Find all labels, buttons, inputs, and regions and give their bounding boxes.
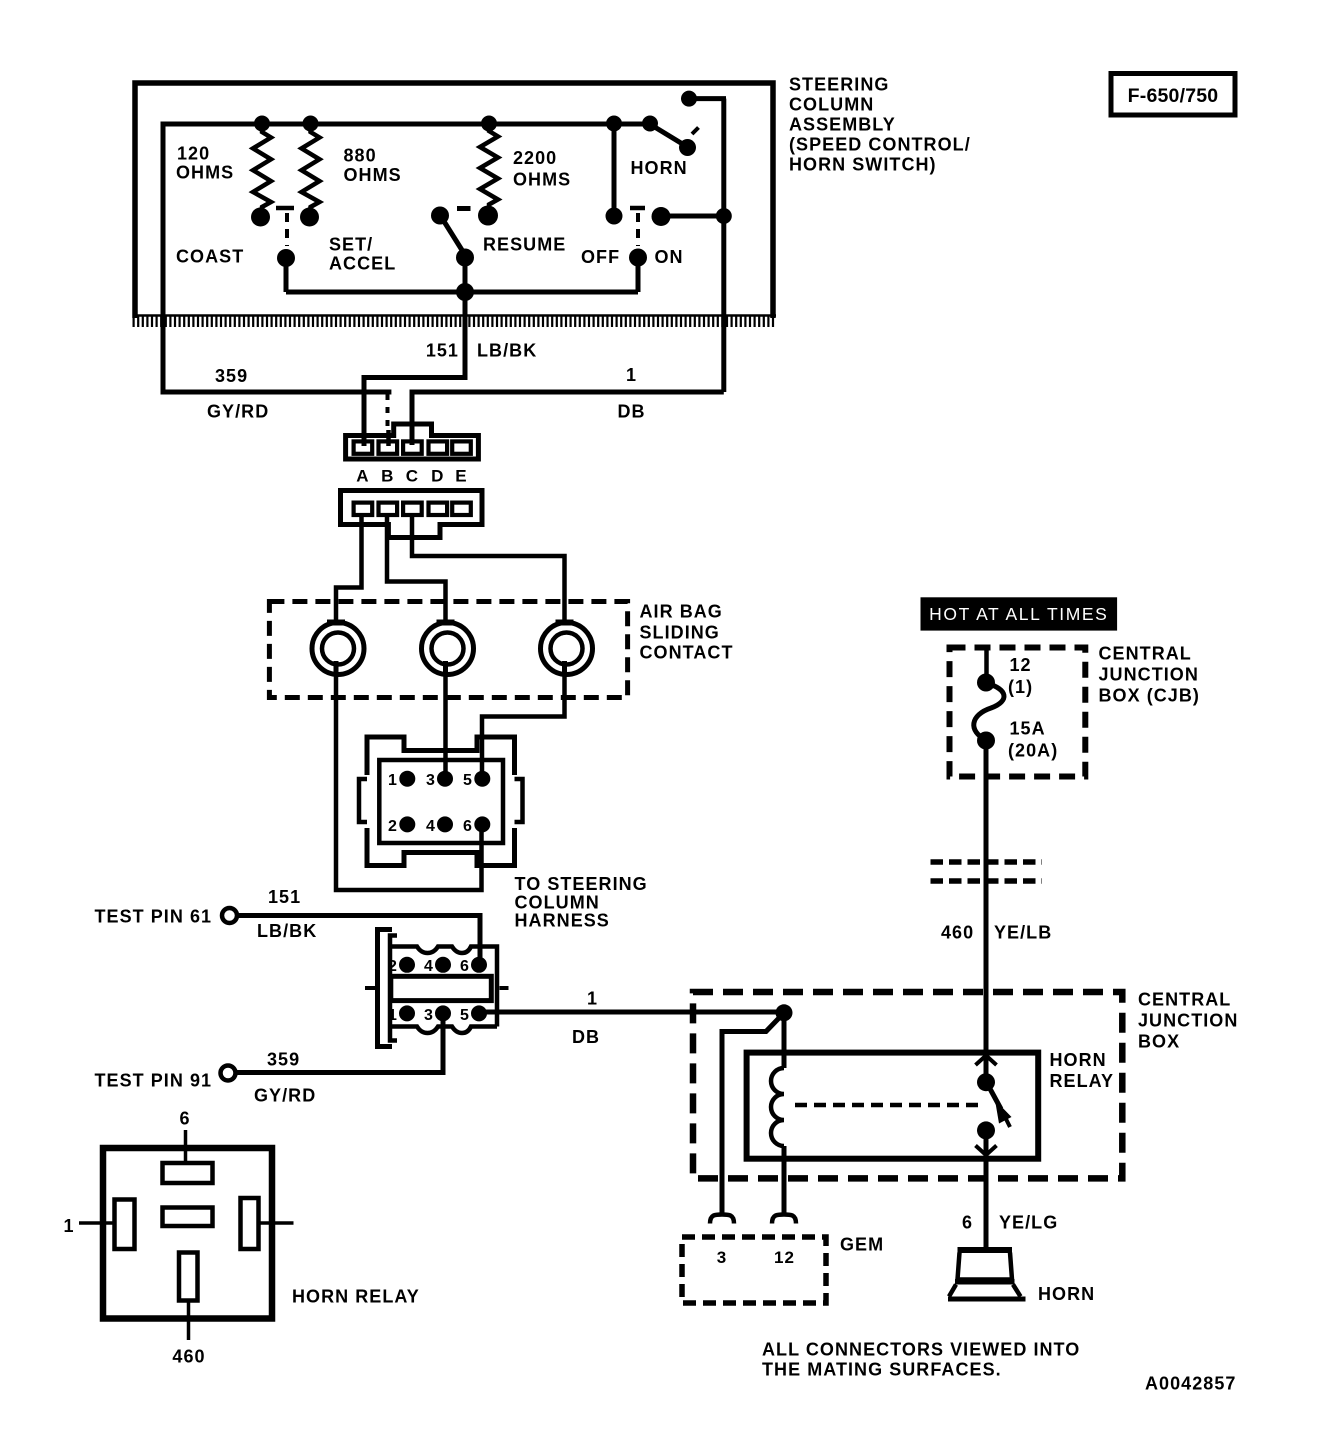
- svg-text:HORN SWITCH): HORN SWITCH): [789, 155, 937, 175]
- connector C202 upper half shell: [346, 424, 479, 459]
- svg-text:6: 6: [179, 1109, 190, 1129]
- svg-text:TO STEERING: TO STEERING: [515, 874, 648, 894]
- svg-text:2: 2: [388, 818, 398, 835]
- pin slot A: [354, 441, 373, 453]
- central junction box dashed box: [693, 992, 1122, 1178]
- sliding contact coil 2: [422, 623, 474, 675]
- pin 2: [399, 816, 415, 832]
- connector C210 lower: outer bracket: [378, 930, 393, 1047]
- switch resume blade contact: [431, 207, 449, 225]
- svg-text:2200: 2200: [513, 148, 557, 168]
- svg-text:CONTACT: CONTACT: [640, 643, 734, 663]
- wire 151 test pin to pin 6: [237, 916, 480, 963]
- pin 6: [474, 816, 490, 832]
- svg-text:HORN: HORN: [1050, 1050, 1107, 1070]
- wire inner top rail: [163, 122, 650, 127]
- pin slot A2: [354, 503, 373, 515]
- svg-text:THE MATING SURFACES.: THE MATING SURFACES.: [762, 1360, 1002, 1380]
- svg-text:ACCEL: ACCEL: [329, 254, 396, 274]
- svg-text:3: 3: [717, 1248, 728, 1267]
- svg-text:460: 460: [172, 1347, 205, 1367]
- pin 1: [399, 771, 415, 787]
- svg-text:HORN RELAY: HORN RELAY: [292, 1287, 420, 1307]
- connector cap pin 12: [772, 1215, 796, 1224]
- pin 4: [437, 816, 453, 832]
- pin slot E: [452, 441, 471, 453]
- switch coast/set-accel contact bar: [276, 206, 294, 211]
- svg-text:1: 1: [388, 1007, 398, 1024]
- svg-text:GY/RD: GY/RD: [254, 1086, 316, 1106]
- svg-text:1: 1: [63, 1216, 74, 1236]
- wire 1 DB pin 5 to relay junction: [484, 1010, 784, 1015]
- horn relay box: [747, 1053, 1039, 1159]
- svg-text:359: 359: [267, 1050, 300, 1070]
- switch on/off dashed actuator: [636, 213, 640, 246]
- svg-text:COAST: COAST: [176, 247, 244, 267]
- svg-text:D: D: [431, 467, 444, 486]
- svg-text:A: A: [356, 467, 369, 486]
- switch resume pivot: [456, 249, 474, 267]
- svg-text:F-650/750: F-650/750: [1128, 85, 1219, 107]
- svg-text:E: E: [455, 467, 467, 486]
- svg-text:LB/BK: LB/BK: [257, 921, 317, 941]
- connector C210 upper: inner body: [379, 760, 503, 843]
- wire pin B2 to sliding contact 2: [387, 513, 446, 622]
- svg-text:DB: DB: [572, 1027, 600, 1047]
- svg-text:GY/RD: GY/RD: [207, 402, 269, 422]
- switch resume blade: [443, 219, 464, 253]
- central junction box fuse dashed box: [950, 648, 1086, 777]
- wire on pivot to bus: [636, 258, 641, 293]
- relay switch upper contact: [977, 1073, 995, 1091]
- relay slot bottom: [179, 1253, 198, 1301]
- svg-text:3: 3: [426, 772, 436, 789]
- switch horn blade tip: [679, 139, 696, 156]
- relay coil: [771, 1068, 784, 1146]
- pin 6 lower: [471, 957, 487, 973]
- wire bus left 359 segment: [161, 390, 392, 395]
- svg-text:1: 1: [388, 772, 398, 789]
- svg-text:AIR BAG: AIR BAG: [640, 602, 723, 622]
- pin 1 lower: [399, 1005, 415, 1021]
- svg-text:3: 3: [424, 1007, 434, 1024]
- svg-text:COLUMN: COLUMN: [515, 893, 600, 913]
- svg-text:151: 151: [426, 341, 459, 361]
- wire 359 dashed drop to pin B: [386, 394, 390, 432]
- switch horn pivot: [642, 116, 658, 132]
- wire pin C2 to sliding contact 3: [412, 513, 565, 622]
- svg-text:1: 1: [626, 365, 637, 385]
- connector C210 upper: stepped outline bottom: [367, 828, 515, 866]
- horn speaker: [958, 1247, 1013, 1253]
- pin slot C2: [403, 503, 422, 515]
- node relay coil junction: [776, 1004, 793, 1021]
- relay slot left: [115, 1200, 135, 1250]
- wire right riser 1 DB: [721, 99, 726, 392]
- pin 3: [437, 771, 453, 787]
- svg-text:OFF: OFF: [581, 247, 620, 267]
- resistor 2200 OHMS: [480, 126, 498, 208]
- switch coast/set-accel pivot: [277, 249, 295, 267]
- svg-text:C: C: [406, 467, 419, 486]
- relay switch arrow bottom: [976, 1146, 997, 1156]
- wire junction to relay coil: [782, 1013, 787, 1068]
- connector cap pin 3: [710, 1215, 734, 1224]
- connector C210 lower: side tabs: [365, 986, 378, 990]
- pin 5: [474, 771, 490, 787]
- svg-text:15A: 15A: [1010, 719, 1046, 739]
- node off contact: [606, 208, 623, 225]
- air bag sliding contact dashed box: [269, 602, 627, 698]
- resistor 880 OHMS: [302, 126, 320, 213]
- connector C210 lower: scalloped top edge: [388, 947, 497, 1027]
- svg-text:CENTRAL: CENTRAL: [1138, 990, 1231, 1010]
- wire pivot to bus: [284, 258, 289, 292]
- svg-text:HARNESS: HARNESS: [515, 911, 610, 931]
- F-650/750 title box: [1111, 74, 1235, 116]
- svg-text:OHMS: OHMS: [176, 163, 234, 183]
- svg-text:HORN: HORN: [631, 158, 688, 178]
- wire contact 1 to pin 6 of harness connector: [336, 674, 482, 890]
- svg-text:1: 1: [587, 989, 598, 1009]
- pin slot C: [403, 441, 422, 453]
- svg-text:SLIDING: SLIDING: [640, 623, 720, 643]
- switch on/off pivot: [629, 249, 647, 267]
- wire 151 from bus junction to pin A: [364, 292, 465, 446]
- connector C210 upper: side tabs: [359, 779, 367, 822]
- sliding contact coil 3: [541, 623, 593, 675]
- relay switch lower contact: [977, 1121, 995, 1139]
- node top rail junction: [606, 116, 622, 132]
- steering column box hatched bottom edge: [133, 314, 777, 317]
- svg-text:6: 6: [962, 1213, 973, 1233]
- pin slot D: [429, 441, 448, 453]
- connector C210 lower: inner bracket: [390, 936, 397, 1041]
- relay slot top: [163, 1163, 213, 1183]
- svg-text:(1): (1): [1008, 677, 1033, 697]
- pin slot B2: [379, 503, 398, 515]
- svg-text:6: 6: [460, 958, 470, 975]
- svg-text:STEERING: STEERING: [789, 75, 889, 95]
- svg-text:2: 2: [388, 958, 398, 975]
- svg-text:JUNCTION: JUNCTION: [1099, 665, 1199, 685]
- switch coast/set-accel dashed actuator: [285, 213, 289, 246]
- node bus junction 151: [456, 283, 474, 301]
- svg-text:ALL CONNECTORS VIEWED INTO: ALL CONNECTORS VIEWED INTO: [762, 1340, 1080, 1360]
- pin 2 lower: [399, 957, 415, 973]
- svg-text:CENTRAL: CENTRAL: [1099, 644, 1192, 664]
- pin 3 lower: [435, 1005, 451, 1021]
- wire resume pivot to bus junction: [463, 258, 468, 293]
- svg-text:(20A): (20A): [1008, 741, 1058, 761]
- relay slot middle: [163, 1208, 213, 1227]
- svg-text:RELAY: RELAY: [1050, 1071, 1115, 1091]
- relay switch arrow top: [976, 1056, 997, 1066]
- svg-text:B: B: [381, 467, 394, 486]
- svg-text:OHMS: OHMS: [513, 170, 571, 190]
- relay slot right: [241, 1198, 259, 1249]
- steering column assembly box outline: [135, 83, 773, 318]
- svg-text:A0042857: A0042857: [1145, 1374, 1236, 1394]
- svg-text:HOT AT ALL TIMES: HOT AT ALL TIMES: [929, 604, 1108, 624]
- svg-text:HORN: HORN: [1038, 1284, 1095, 1304]
- hot at all times banner: [921, 597, 1118, 630]
- svg-text:LB/BK: LB/BK: [477, 341, 537, 361]
- pin 5 lower: [471, 1005, 487, 1021]
- switch resume dashed link: [457, 206, 471, 211]
- resistor 120 OHMS: [253, 126, 271, 213]
- svg-text:OHMS: OHMS: [344, 165, 402, 185]
- svg-text:ON: ON: [655, 247, 684, 267]
- svg-text:TEST PIN 61: TEST PIN 61: [95, 907, 213, 927]
- svg-text:ASSEMBLY: ASSEMBLY: [789, 115, 896, 135]
- in-line connector break dashes: [931, 859, 1043, 865]
- wire switch common bus: [286, 290, 638, 295]
- wire relay to horn: [984, 1138, 989, 1249]
- horn relay component box: [103, 1148, 272, 1319]
- svg-text:359: 359: [215, 366, 248, 386]
- svg-text:12: 12: [1010, 655, 1032, 675]
- wire contact 2 to pin 3: [443, 674, 448, 776]
- wire rail to off contact: [612, 124, 617, 217]
- svg-text:4: 4: [426, 818, 436, 835]
- wire bus right 1 DB segment: [412, 392, 724, 445]
- svg-text:460: 460: [941, 923, 974, 943]
- svg-text:880: 880: [344, 146, 377, 166]
- wire coil to GEM pin 12: [782, 1146, 787, 1214]
- wire contact 3 to pin 5: [482, 674, 565, 776]
- svg-text:COLUMN: COLUMN: [789, 95, 874, 115]
- svg-text:5: 5: [463, 772, 473, 789]
- svg-text:5: 5: [460, 1007, 470, 1024]
- wire horn contact to riser: [689, 96, 726, 101]
- svg-text:JUNCTION: JUNCTION: [1138, 1011, 1238, 1031]
- svg-text:12: 12: [774, 1248, 795, 1267]
- fuse 15A: [977, 674, 995, 692]
- svg-text:TEST PIN 91: TEST PIN 91: [95, 1071, 213, 1091]
- svg-text:120: 120: [177, 144, 210, 164]
- svg-text:GEM: GEM: [840, 1235, 884, 1255]
- svg-text:YE/LG: YE/LG: [999, 1213, 1058, 1233]
- svg-text:6: 6: [463, 818, 473, 835]
- node on contact: [652, 207, 671, 226]
- wire into fuse: [984, 647, 989, 679]
- wire on contact to riser: [662, 214, 724, 219]
- relay switch blade: [989, 1086, 1002, 1109]
- connector C202 lower half shell: [341, 491, 483, 538]
- node horn contact: [681, 91, 697, 107]
- relay actuator dashed link: [795, 1103, 983, 1108]
- GEM dashed box: [682, 1237, 826, 1303]
- wire junction to GEM pin 3: [722, 1013, 784, 1214]
- svg-text:BOX (CJB): BOX (CJB): [1099, 686, 1200, 706]
- switch horn blade: [653, 126, 688, 147]
- wire inner left edge down to bus: [161, 122, 166, 393]
- svg-text:BOX: BOX: [1138, 1032, 1180, 1052]
- svg-text:RESUME: RESUME: [483, 235, 566, 255]
- svg-text:YE/LB: YE/LB: [994, 923, 1052, 943]
- connector C210 upper: stepped outline top: [367, 737, 515, 775]
- wire 460 fuse to relay: [984, 740, 989, 1078]
- wire pin A2 to sliding contact 1: [336, 513, 362, 622]
- svg-text:151: 151: [268, 887, 301, 907]
- switch horn dashed link: [692, 128, 699, 135]
- svg-text:DB: DB: [618, 402, 646, 422]
- wire 359 test pin to pin 3: [236, 1016, 444, 1073]
- pin slot D2: [429, 503, 448, 515]
- switch on/off contact bar: [630, 206, 645, 211]
- svg-text:4: 4: [424, 958, 434, 975]
- connector C210 lower: scalloped bottom edge: [388, 1027, 497, 1034]
- sliding contact coil 1: [312, 623, 364, 675]
- svg-text:(SPEED CONTROL/: (SPEED CONTROL/: [789, 135, 971, 155]
- pin 4 lower: [435, 957, 451, 973]
- pin slot E2: [452, 503, 471, 515]
- node riser junction: [716, 208, 732, 224]
- connector C210 lower: middle slot: [391, 976, 492, 1000]
- pin slot B: [379, 441, 398, 453]
- svg-text:SET/: SET/: [329, 235, 373, 255]
